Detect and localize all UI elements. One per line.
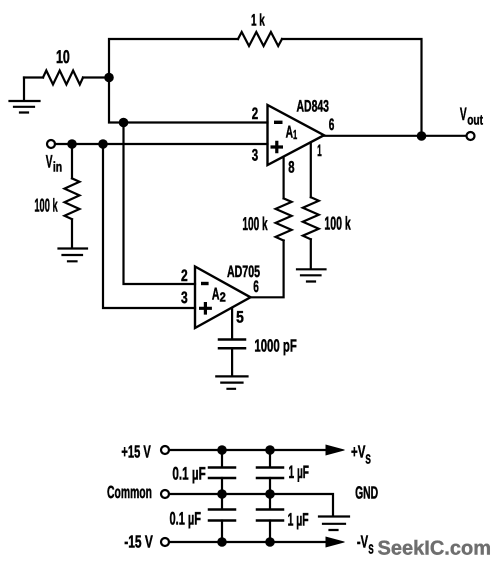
resistor R3 100 k (Vin to ground) xyxy=(65,144,80,247)
svg-text:3: 3 xyxy=(181,289,188,307)
wire: R4 down to A2 output pin 6 xyxy=(251,241,284,298)
node B (output node) xyxy=(417,131,427,141)
pin 1 lead of A1 xyxy=(310,143,312,198)
svg-text:1 µF: 1 µF xyxy=(289,462,310,482)
svg-text:100 k: 100 k xyxy=(324,213,351,234)
node K (-15 rail / C5) xyxy=(265,537,275,547)
svg-text:-15 V: -15 V xyxy=(124,531,153,551)
svg-text:5: 5 xyxy=(236,309,244,327)
terminal Vout xyxy=(467,132,475,140)
wire: node A up to 1k feedback xyxy=(109,39,238,78)
svg-text:3: 3 xyxy=(252,146,258,164)
svg-text:2: 2 xyxy=(181,267,188,285)
svg-text:-V: -V xyxy=(357,531,368,551)
capacitor C5 1 uF lower xyxy=(257,494,283,542)
svg-text:+15 V: +15 V xyxy=(121,441,151,461)
wire: R5 to ground xyxy=(310,239,312,268)
svg-text:S: S xyxy=(365,452,371,467)
svg-text:6: 6 xyxy=(253,278,259,296)
terminal +15 V xyxy=(161,446,169,454)
ground GND4 (below C1) xyxy=(216,376,247,388)
svg-text:SeekIC.com: SeekIC.com xyxy=(378,538,492,560)
svg-text:A: A xyxy=(286,122,293,141)
svg-text:1: 1 xyxy=(317,142,322,160)
capacitor C2 0.1 uF upper xyxy=(209,450,235,494)
ground GND2 (below R3) xyxy=(59,249,88,262)
svg-text:Common: Common xyxy=(107,482,152,502)
wire: -15 V rail xyxy=(169,541,328,543)
svg-text:100 k: 100 k xyxy=(34,194,58,215)
svg-text:2: 2 xyxy=(252,105,258,123)
svg-text:8: 8 xyxy=(288,158,294,176)
terminal Vin xyxy=(47,140,55,148)
capacitor C4 0.1 uF lower xyxy=(209,494,235,542)
svg-text:1 k: 1 k xyxy=(251,12,265,30)
capacitor C1 1000 pF xyxy=(219,340,245,349)
node E (junction to A2 pin 3) xyxy=(98,139,108,149)
op-amp A2 plus sign xyxy=(199,302,212,315)
wire: Vin to A1 pin 3 xyxy=(55,143,268,145)
node F (+15 rail / C2) xyxy=(217,445,227,455)
wire: node E down to A2 pin 3 xyxy=(103,144,195,308)
svg-text:100 k: 100 k xyxy=(242,213,268,234)
ground GND1 (return of 10 ohm resistor) xyxy=(10,78,40,113)
ground GND3 (below R5) xyxy=(297,269,326,281)
resistor R1 10 xyxy=(24,71,83,85)
node G (+15 rail / C3) xyxy=(265,445,275,455)
op-amp A1 minus sign xyxy=(274,121,283,124)
svg-text:V: V xyxy=(46,151,53,171)
svg-text:A: A xyxy=(212,285,220,304)
arrow -Vs xyxy=(326,537,344,547)
svg-text:0.1 µF: 0.1 µF xyxy=(170,509,202,529)
resistor R4 100 k (pin 8 to A2 output) xyxy=(276,198,292,240)
op-amp U1 A1 AD843 triangle xyxy=(268,105,325,165)
svg-text:10: 10 xyxy=(56,46,70,67)
op-amp U2 A2 AD705 triangle xyxy=(195,267,251,329)
node I (common / C3) xyxy=(265,489,275,499)
arrow +Vs xyxy=(326,445,344,455)
wire: node C down to A2 pin 2 xyxy=(124,123,196,285)
node H (common / C2) xyxy=(217,489,227,499)
svg-text:in: in xyxy=(53,159,62,175)
terminal -15 V xyxy=(161,538,169,546)
svg-text:1 µF: 1 µF xyxy=(288,509,309,529)
node C (junction to A2 pin 2) xyxy=(119,118,129,128)
wire: C1 to ground xyxy=(231,348,233,375)
pin 5 lead of A2 xyxy=(231,308,233,339)
pin 8 lead of A1 xyxy=(283,157,285,198)
node A (junction 10 / 1k / A1 pin 2) xyxy=(104,73,114,83)
wire: A1 output to Vout terminal xyxy=(324,135,467,137)
svg-text:GND: GND xyxy=(355,483,378,503)
node D (junction to R3 100k) xyxy=(67,139,77,149)
wire: node A down to A1 pin 2 xyxy=(109,78,268,123)
svg-text:1: 1 xyxy=(293,127,297,142)
wire: common rail to GND xyxy=(169,494,333,516)
op-amp A2 minus sign xyxy=(201,282,209,285)
svg-text:out: out xyxy=(467,111,483,127)
capacitor C3 1 uF upper xyxy=(257,450,283,494)
wire: R1 to node A xyxy=(83,76,109,78)
svg-text:V: V xyxy=(460,104,467,124)
svg-text:0.1 µF: 0.1 µF xyxy=(172,463,205,483)
svg-text:S: S xyxy=(368,541,374,556)
node J (-15 rail / C4) xyxy=(217,537,227,547)
terminal Common xyxy=(161,490,169,498)
resistor R2 1 k xyxy=(238,32,282,46)
wire: +15 V rail xyxy=(169,449,328,451)
ground GND5 (power common) xyxy=(319,517,349,531)
resistor R5 100 k (pin 1 to ground) xyxy=(303,197,319,239)
svg-text:6: 6 xyxy=(329,116,335,134)
svg-text:2: 2 xyxy=(220,290,226,305)
svg-text:AD843: AD843 xyxy=(297,98,330,116)
svg-text:+V: +V xyxy=(351,442,366,462)
svg-text:1000 pF: 1000 pF xyxy=(254,336,297,356)
op-amp A1 plus sign xyxy=(271,141,284,153)
wire: 1k to output node xyxy=(282,39,422,131)
